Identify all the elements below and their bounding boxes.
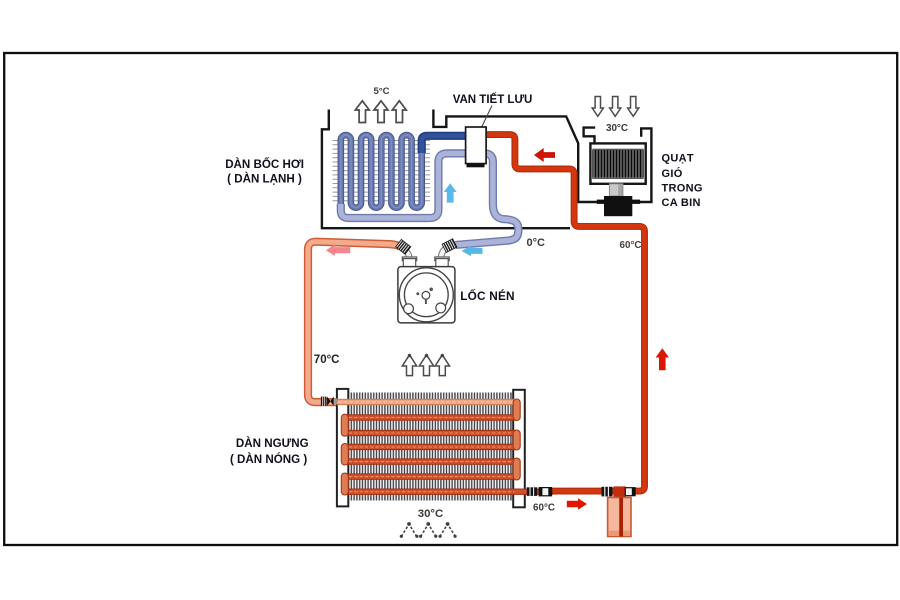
svg-text:DÀN BỐC HƠI: DÀN BỐC HƠI [225,157,304,171]
svg-text:0°C: 0°C [527,237,546,249]
svg-text:VAN TIẾT LƯU: VAN TIẾT LƯU [453,93,533,106]
svg-text:CA BIN: CA BIN [662,197,701,209]
svg-text:( DÀN LẠNH ): ( DÀN LẠNH ) [227,173,302,186]
svg-text:60°C: 60°C [533,503,555,514]
svg-text:5°C: 5°C [373,86,389,97]
svg-text:30°C: 30°C [418,508,443,520]
svg-text:60°C: 60°C [620,240,642,251]
svg-text:( DÀN NÓNG ): ( DÀN NÓNG ) [230,453,307,466]
svg-text:30°C: 30°C [606,123,628,134]
svg-text:DÀN NGƯNG: DÀN NGƯNG [236,437,309,450]
svg-text:LỐC NÉN: LỐC NÉN [460,289,515,303]
svg-text:QUẠT: QUẠT [662,152,694,164]
svg-text:TRONG: TRONG [662,182,703,194]
svg-text:70°C: 70°C [314,354,340,366]
svg-text:GIÓ: GIÓ [662,167,683,180]
